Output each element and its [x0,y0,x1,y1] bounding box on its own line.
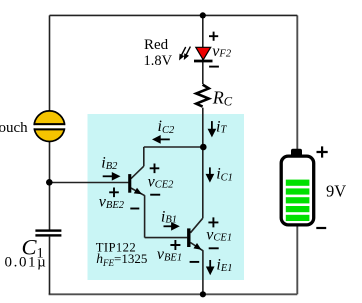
svg-text:Red: Red [144,37,169,53]
svg-text:0.01µ: 0.01µ [5,255,48,271]
svg-text:1.8V: 1.8V [144,53,173,69]
svg-text:9V: 9V [326,182,346,201]
svg-text:Touch: Touch [0,120,28,136]
